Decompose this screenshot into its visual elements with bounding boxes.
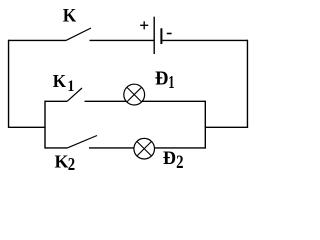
- battery + label: [140, 21, 148, 29]
- battery short plate: [160, 28, 162, 44]
- switch K: [66, 28, 91, 40]
- wire left vertical: [8, 40, 10, 128]
- battery - label: [167, 33, 172, 35]
- battery long plate: [153, 17, 155, 54]
- wire left junction horizontal: [9, 126, 45, 128]
- wire branch1 right of switch: [85, 100, 206, 102]
- svg-text:Đ: Đ: [155, 68, 168, 90]
- svg-text:1: 1: [168, 73, 174, 93]
- svg-text:2: 2: [68, 154, 75, 175]
- wire right junction horizontal: [205, 126, 248, 128]
- lamp D2: [134, 138, 155, 159]
- svg-text:2: 2: [176, 151, 183, 172]
- svg-text:K: K: [55, 152, 69, 172]
- svg-text:K: K: [53, 71, 67, 92]
- wire left parallel bar: [44, 101, 46, 149]
- switch K2: [67, 136, 97, 149]
- wire top-right horizontal: [162, 39, 247, 41]
- wire top-left horizontal: [9, 39, 66, 41]
- wire right parallel bar: [204, 101, 206, 149]
- svg-text:1: 1: [67, 78, 74, 95]
- svg-text:Đ: Đ: [163, 148, 176, 170]
- wire branch1 left stub: [45, 100, 67, 102]
- lamp D1: [124, 84, 145, 105]
- wire right vertical: [246, 40, 248, 128]
- wire branch2 right of switch: [89, 147, 205, 149]
- switch K1: [67, 88, 82, 101]
- wire top-middle (switch to battery): [90, 39, 154, 41]
- svg-text:K: K: [63, 5, 77, 26]
- wire branch2 left stub: [45, 147, 67, 149]
